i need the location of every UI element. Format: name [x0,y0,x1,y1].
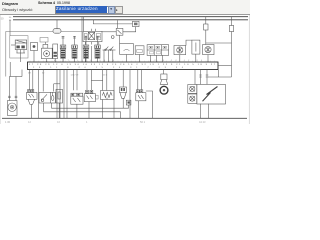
connector pill T2b [53,29,61,34]
connector ticks on BR wires [199,75,208,77]
plug assembly T4e [136,90,146,101]
strip end pin [217,70,219,78]
wire fuse down [123,27,136,32]
wire W12 [76,70,78,91]
wire W22 [140,70,142,90]
wire W13 [86,70,88,91]
sensor G71 [120,44,134,63]
svg-text:12: 12 [28,120,31,124]
header title "Diagram" [2,1,18,6]
svg-text:17 28 29 12 6 13 30 16 33 11: 17 28 29 12 6 13 30 16 33 11 4 25 26 14 … [29,64,216,66]
wire W30 [138,101,140,119]
ignition box with flash symbol [197,85,226,105]
wire W25 [200,70,202,85]
connector plug end [126,100,131,105]
relay J167 [11,40,27,62]
sensor block G39 [147,45,169,62]
header field label [2,7,33,12]
switch unit F47 [39,92,55,103]
fuel pump sender G6 [42,48,53,62]
canvas left border [0,15,1,124]
combobox selection [56,6,107,12]
svg-text:14 17 19: 14 17 19 [71,75,80,77]
injector N30 [60,36,66,62]
svg-text:1 30: 1 30 [5,120,11,124]
ECU connector strip J361 [28,62,219,70]
wire W26 [206,70,208,85]
power rail 15 [13,19,248,21]
connector cluster T10a [71,93,83,118]
wire W5 [54,83,60,85]
wire W4 [42,70,44,92]
svg-text:2 8: 2 8 [28,73,32,75]
sensor box G [56,89,63,118]
plug assembly T4a [27,90,38,119]
wire W15 [91,80,102,82]
wire W33 [207,104,209,119]
switch F [103,47,116,62]
wire W23 [163,70,165,75]
module inner drop [9,62,11,77]
svg-text:30: 30 [42,73,45,75]
plug assembly T10 [84,90,98,101]
header separator [0,14,250,15]
module inner box [10,36,28,58]
wire W20 [129,70,131,119]
horn H [160,74,168,94]
label box J17 [40,38,48,43]
svg-text:28 11 8 20 15 24 31: 28 11 8 20 15 24 31 7 23 34 [33,67,184,69]
wire W24 [194,70,196,85]
wire W2 [32,70,34,91]
injector N32 [83,36,89,62]
left feed wire to module [9,20,11,36]
capacitor element C [31,43,38,63]
plug T4d [120,87,127,98]
wire rail to control module J17 [117,20,119,28]
wire W18 [113,70,115,119]
wire W16 [102,70,104,91]
wire W10 [66,70,68,119]
pressure element [186,40,200,62]
wire W29 [122,99,124,109]
fuse S234 branch [206,17,234,77]
engine control unit outline box [6,32,82,77]
svg-text:50 1: 50 1 [140,120,146,124]
svg-text:15: 15 [9,20,12,22]
svg-text:1: 1 [86,120,88,124]
connector pair T2x [188,85,197,104]
wire W3 [38,70,40,119]
strip top tick row [30,61,215,62]
wire W11 [73,70,75,91]
wire W6 [53,84,55,92]
relay top pin ticks [91,29,93,32]
wire W17 [106,70,108,91]
wire W27 [88,102,90,119]
wire rail to pill [56,20,58,29]
toolbar small button [115,6,124,15]
wire W1 [28,70,30,91]
fuel pump V with motor [8,70,23,116]
injector N31 [72,36,78,62]
wire W31 [146,91,153,118]
valve N156 [203,45,214,63]
ground rail 31 [2,117,247,119]
heater resistor Z [101,91,115,100]
valve N80 [174,46,186,63]
header bar [0,0,250,15]
wire drops below strip [29,70,208,119]
svg-text:16: 16 [57,120,60,124]
wire W8 [59,70,61,119]
svg-text:44 23: 44 23 [199,120,206,124]
wire W7 [56,70,58,119]
wire W32 [200,104,202,119]
wire feed to fuse [93,20,132,24]
routing wire to ground bus B [52,103,129,108]
wire rail1 to relay J271 [83,17,85,31]
fuse S131 drop [204,17,208,45]
wire W28 [102,100,104,119]
header schema info [38,1,70,5]
sensor G62 [135,46,144,62]
injector N33 [95,36,101,62]
wire rail to module right edge [81,17,83,32]
svg-text:50: 50 [1,17,5,21]
schematic canvas [0,0,250,124]
canvas right border [248,15,250,124]
routing wire to ground bus A [44,103,121,118]
connector T2a [43,42,48,48]
wire relay to control module [102,31,116,33]
wire W14 [90,70,92,91]
fuse S132 [133,21,140,26]
combobox [55,6,115,15]
wire W21 [137,70,139,90]
combobox arrow button [108,6,115,14]
relay J271 [83,31,102,62]
wire strip right end to fuse branch [218,65,232,67]
svg-text:30: 30 [9,17,12,19]
power rail 30 [13,16,248,18]
control module J17 [111,28,123,43]
wire W19 [122,70,124,88]
wire W9 [63,70,65,119]
valve element V [53,44,58,62]
